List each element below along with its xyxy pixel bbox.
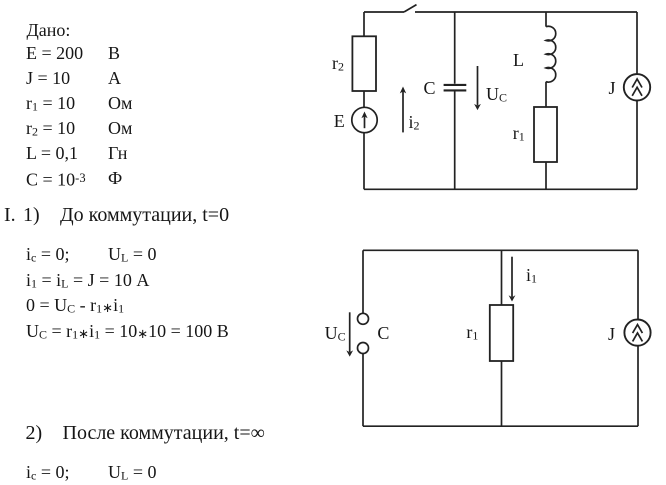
resistor r1 (circuit2) xyxy=(490,305,513,361)
equations section 1 xyxy=(26,243,70,269)
wire: circuit1 top-left segment to switch xyxy=(364,11,404,13)
wire: J to bottom rail xyxy=(636,100,638,189)
label Uc circuit1 xyxy=(486,83,507,109)
capacitor terminal node (top circle) xyxy=(358,313,369,324)
label J circuit1 xyxy=(609,77,616,99)
current arrow i1 (down) xyxy=(511,257,513,297)
capacitor C plates xyxy=(444,84,467,86)
J circuit2 chevron arrows xyxy=(633,325,643,334)
wire: circuit1 bottom rail xyxy=(364,188,637,190)
source E (circle) xyxy=(352,107,377,132)
equations section 2 xyxy=(26,461,70,485)
wire: circuit2 middle branch top xyxy=(501,250,503,305)
switch S (open blade) xyxy=(404,5,417,12)
label C circuit2 xyxy=(377,322,389,344)
wire: circuit2 top rail xyxy=(363,249,638,251)
label E xyxy=(334,110,345,132)
label Uc circuit2 xyxy=(325,322,346,348)
wire: circuit2 bottom rail xyxy=(363,425,638,427)
voltage arrow Uc (down) xyxy=(477,66,479,106)
current source J (circle) xyxy=(624,74,650,100)
current source J circuit2 (circle) xyxy=(624,320,650,346)
resistor r1 (circuit1) xyxy=(534,107,557,162)
label J circuit2 xyxy=(608,323,615,345)
label i2 xyxy=(409,111,420,137)
wire: capacitor branch top xyxy=(454,12,456,84)
wire: r1 to bottom rail xyxy=(545,162,547,189)
wire: r2 to E source xyxy=(363,91,365,107)
capacitor terminal node (bottom circle) xyxy=(358,343,369,354)
section heading I. 1) xyxy=(4,203,16,227)
wire: circuit2 left branch bottom xyxy=(362,354,364,427)
wire: J branch top xyxy=(636,12,638,74)
wire: L to r1 xyxy=(545,82,547,107)
section heading 2) xyxy=(26,421,43,445)
wire: circuit2 middle branch bottom xyxy=(501,361,503,426)
resistor r2 xyxy=(352,36,376,91)
wire: inductor branch top xyxy=(545,12,547,27)
voltage arrow Uc circuit2 (down) xyxy=(349,312,351,352)
wire: circuit1 top segment switch to right corner xyxy=(415,11,637,13)
given data text block xyxy=(27,19,71,41)
wire: E to bottom-left corner xyxy=(363,133,365,190)
source E arrow up xyxy=(364,116,366,128)
label r1 circuit1 xyxy=(513,122,525,148)
label i1 xyxy=(526,264,537,290)
label r1 circuit2 xyxy=(466,321,478,347)
wire: circuit2 right branch top xyxy=(637,250,639,319)
wire: circuit2 right branch bottom xyxy=(637,346,639,427)
inductor L coil xyxy=(546,26,556,82)
J chevron arrows xyxy=(632,79,642,88)
label C circuit1 xyxy=(424,77,436,99)
wire: left branch from top to r2 xyxy=(363,12,365,36)
wire: capacitor branch bottom xyxy=(454,92,456,190)
label L xyxy=(513,49,524,71)
wire: circuit2 left branch top xyxy=(362,250,364,313)
label r2 xyxy=(332,52,344,78)
current arrow i2 (up) xyxy=(402,91,404,132)
